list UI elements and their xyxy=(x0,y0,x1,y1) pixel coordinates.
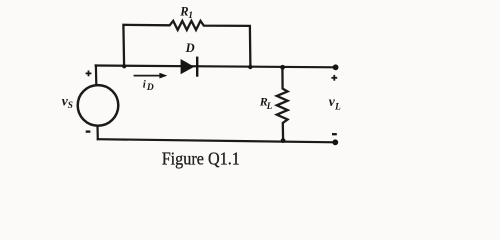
svg-text:D: D xyxy=(146,83,154,93)
svg-text:R: R xyxy=(179,5,188,19)
svg-text:Figure Q1.1: Figure Q1.1 xyxy=(162,149,240,169)
svg-text:1: 1 xyxy=(188,11,193,21)
svg-text:S: S xyxy=(68,101,73,111)
svg-text:L: L xyxy=(334,102,341,112)
svg-text:L: L xyxy=(266,101,273,111)
svg-text:D: D xyxy=(185,41,195,55)
